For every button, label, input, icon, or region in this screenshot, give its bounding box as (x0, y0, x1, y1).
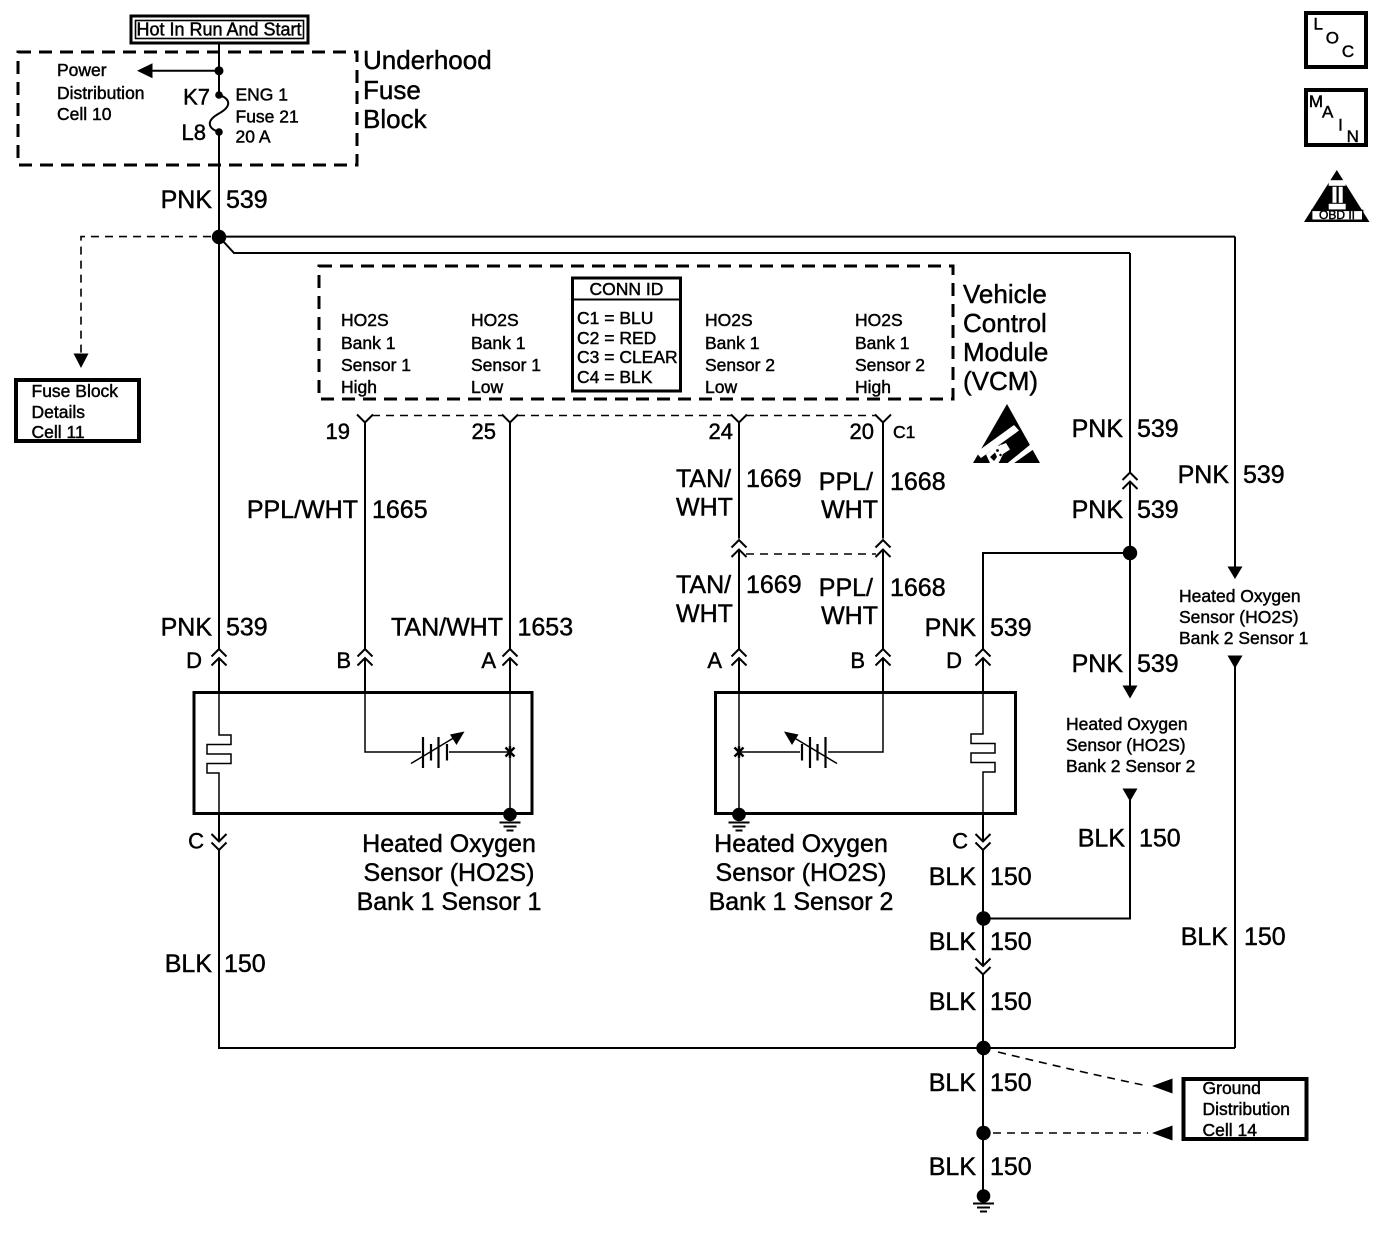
svg-text:TAN/: TAN/ (676, 571, 731, 599)
svg-text:Underhood: Underhood (363, 45, 492, 75)
svg-text:Fuse Block: Fuse Block (32, 381, 119, 401)
svg-text:150: 150 (990, 988, 1032, 1016)
svg-text:HO2S: HO2S (855, 310, 903, 330)
svg-text:WHT: WHT (676, 600, 733, 628)
sensor1 internal wire A to ground (509, 691, 511, 813)
junction BLK splice 1 (976, 911, 990, 925)
svg-text:539: 539 (1243, 461, 1285, 489)
sensor1 D pin connector (212, 649, 227, 657)
inline connector on PNK 539 (x=1130) (1123, 473, 1138, 481)
wire BLK 150 sensor2 C to splice (982, 850, 984, 966)
sensor2 internal wire B to cell (828, 691, 883, 752)
svg-text:1668: 1668 (890, 574, 946, 602)
svg-text:150: 150 (990, 863, 1032, 891)
svg-text:Sensor 2: Sensor 2 (705, 355, 775, 375)
svg-text:C3 = CLEAR: C3 = CLEAR (577, 347, 678, 367)
svg-text:Ground: Ground (1203, 1078, 1261, 1098)
svg-text:Bank 1 Sensor 2: Bank 1 Sensor 2 (709, 888, 894, 916)
junction dot for ground ref (976, 1126, 990, 1140)
svg-text:C: C (188, 829, 204, 854)
svg-text:Heated Oxygen: Heated Oxygen (362, 830, 536, 858)
wire pin24 TAN/WHT 1669 lower segment (738, 550, 740, 649)
svg-text:539: 539 (226, 186, 268, 214)
wire from Bank 2 Sensor 1 return (1228, 656, 1243, 669)
svg-text:19: 19 (326, 419, 350, 444)
sensor2 C pin connector (982, 814, 984, 842)
svg-text:25: 25 (472, 419, 496, 444)
wire BLK 150 from sensor1 C down and right (219, 850, 1235, 1048)
svg-text:HO2S: HO2S (471, 310, 519, 330)
arrowhead down to Fuse Block Details (74, 354, 89, 369)
svg-text:Low: Low (705, 377, 737, 397)
svg-text:C2 = RED: C2 = RED (577, 328, 656, 348)
svg-text:PNK: PNK (1072, 496, 1124, 524)
svg-text:BLK: BLK (1181, 923, 1229, 951)
Fuse Block Details Cell 11 box (16, 380, 139, 441)
wire pin19 PPL/WHT 1665 down to B pin (364, 423, 366, 650)
wire PNK 539 junction down to sensor1 D pin (218, 237, 220, 649)
svg-text:Sensor 1: Sensor 1 (341, 355, 411, 375)
svg-text:Control: Control (963, 308, 1047, 338)
svg-text:150: 150 (990, 1069, 1032, 1097)
sensor2 junction X marker (735, 746, 744, 758)
svg-text:PNK: PNK (161, 614, 213, 642)
inline connector on wire 1669 (732, 540, 747, 548)
svg-text:150: 150 (1244, 923, 1286, 951)
svg-text:Fuse: Fuse (363, 75, 421, 105)
svg-text:TAN/: TAN/ (676, 465, 731, 493)
svg-text:Cell 14: Cell 14 (1203, 1120, 1258, 1140)
variable voltage cell sensor2 (824, 737, 826, 768)
svg-text:A: A (1322, 102, 1334, 121)
heater element sensor2 (971, 691, 995, 814)
svg-text:WHT: WHT (676, 494, 733, 522)
svg-text:Bank 2 Sensor 2: Bank 2 Sensor 2 (1066, 756, 1195, 776)
Hot In Run And Start box (131, 16, 308, 43)
OBD II symbol (1304, 170, 1370, 222)
svg-text:I: I (1338, 116, 1343, 135)
svg-text:BLK: BLK (165, 950, 213, 978)
svg-text:150: 150 (224, 950, 266, 978)
svg-text:D: D (946, 648, 962, 673)
svg-text:PPL/: PPL/ (819, 468, 873, 496)
svg-text:20 A: 20 A (236, 127, 271, 147)
svg-text:Sensor (HO2S): Sensor (HO2S) (1066, 735, 1186, 755)
variable voltage cell sensor1 (422, 737, 424, 768)
svg-text:Fuse 21: Fuse 21 (236, 107, 299, 127)
svg-text:CONN ID: CONN ID (590, 279, 664, 299)
svg-text:B: B (850, 648, 865, 673)
CONN ID table box (573, 278, 681, 391)
svg-text:1668: 1668 (890, 468, 946, 496)
sensor2 ground (732, 808, 746, 822)
wire PNK splice down to arrow (1129, 553, 1131, 686)
svg-text:BLK: BLK (929, 928, 977, 956)
svg-text:1669: 1669 (746, 465, 802, 493)
dashed reference to Ground Distribution (from splice2) (998, 1052, 1148, 1086)
svg-text:C: C (952, 829, 968, 854)
sensor2 internal wire A to ground (738, 691, 740, 813)
svg-text:M: M (1309, 92, 1323, 111)
HO2S Bank 1 Sensor 2 box (716, 693, 1016, 814)
svg-text:BLK: BLK (929, 1153, 977, 1181)
MAIN symbol (1306, 90, 1366, 145)
junction at Hot feed (215, 66, 224, 75)
svg-text:Bank 1: Bank 1 (855, 333, 909, 353)
wire PNK 539 second horizontal run (222, 240, 1130, 253)
svg-text:150: 150 (990, 1153, 1032, 1181)
VCM pin 24 fork (731, 415, 747, 423)
svg-text:OBD II: OBD II (1319, 208, 1355, 222)
svg-text:24: 24 (709, 419, 733, 444)
sensor1 ground (503, 808, 517, 822)
arrowhead PNK down (Bank 2 Sensor 2) (1123, 686, 1138, 699)
sensor2 A pin connector (732, 649, 747, 657)
wire PNK 539 top horizontal run to right side (219, 236, 1235, 238)
svg-text:PNK: PNK (161, 186, 213, 214)
wire to Power Distribution arrow (152, 70, 219, 72)
svg-text:A: A (481, 648, 496, 673)
svg-text:Low: Low (471, 377, 503, 397)
svg-text:PPL/: PPL/ (819, 574, 873, 602)
svg-text:C1: C1 (893, 422, 915, 442)
wire right vertical PNK 539 to HO2S Bank 2 Sensor 1 (1234, 237, 1236, 567)
svg-text:Sensor (HO2S): Sensor (HO2S) (364, 859, 535, 887)
sensor1 C pin connector (218, 815, 220, 842)
svg-text:Vehicle: Vehicle (963, 279, 1047, 309)
connector C1 dashed line under VCM (372, 415, 503, 417)
svg-text:539: 539 (1137, 650, 1179, 678)
svg-text:High: High (855, 377, 891, 397)
svg-text:N: N (1347, 127, 1359, 146)
heater element sensor1 (207, 691, 231, 815)
svg-text:PNK: PNK (925, 614, 977, 642)
arrowhead PNK down (Bank 2 Sensor 1) (1228, 567, 1243, 580)
Ground Distribution Cell 14 box (1184, 1079, 1307, 1139)
svg-text:BLK: BLK (929, 1069, 977, 1097)
svg-text:1653: 1653 (518, 614, 574, 642)
svg-text:Power: Power (57, 60, 107, 80)
svg-text:O: O (1326, 29, 1339, 48)
VCM dashed box (319, 266, 953, 399)
svg-text:539: 539 (1137, 415, 1179, 443)
svg-text:150: 150 (1139, 825, 1181, 853)
svg-text:150: 150 (990, 928, 1032, 956)
sensor1 wire cell to A (449, 751, 510, 753)
svg-text:A: A (707, 648, 722, 673)
svg-text:Distribution: Distribution (1203, 1099, 1291, 1119)
Underhood Fuse Block dashed box (18, 52, 357, 165)
sensor2 D pin connector (976, 649, 991, 657)
svg-text:Distribution: Distribution (57, 83, 145, 103)
svg-text:ENG 1: ENG 1 (236, 85, 289, 105)
svg-text:L: L (1314, 15, 1323, 34)
svg-text:BLK: BLK (1078, 825, 1126, 853)
dashed reference to Ground Distribution (from dot) (993, 1132, 1148, 1134)
sensor1 B pin connector (358, 649, 373, 657)
sensor1 junction X marker (506, 746, 515, 758)
svg-text:Cell 10: Cell 10 (57, 104, 112, 124)
svg-text:Sensor 1: Sensor 1 (471, 355, 541, 375)
svg-text:539: 539 (1137, 496, 1179, 524)
svg-text:(VCM): (VCM) (963, 366, 1038, 396)
svg-text:Hot In Run And Start: Hot In Run And Start (136, 20, 301, 40)
dashed link between inline connectors (746, 553, 876, 555)
svg-text:PNK: PNK (1178, 461, 1230, 489)
svg-text:B: B (336, 648, 351, 673)
svg-text:Heated Oxygen: Heated Oxygen (1179, 586, 1301, 606)
svg-text:Block: Block (363, 104, 428, 134)
arrowhead to Power Distribution (137, 63, 153, 78)
wire fuse to junction (218, 132, 220, 237)
svg-text:539: 539 (990, 614, 1032, 642)
svg-text:Sensor (HO2S): Sensor (HO2S) (716, 859, 887, 887)
svg-text:539: 539 (226, 614, 268, 642)
svg-text:Sensor 2: Sensor 2 (855, 355, 925, 375)
svg-text:WHT: WHT (821, 496, 878, 524)
svg-text:Heated Oxygen: Heated Oxygen (1066, 714, 1188, 734)
VCM pin 25 fork (502, 415, 518, 423)
wire pin24 TAN/WHT 1669 upper segment (738, 423, 740, 539)
sensor1 internal wire B to cell (365, 691, 421, 752)
junction node PNK splice right (1123, 546, 1137, 560)
ESD sensitivity symbol (973, 404, 1040, 466)
sensor2 wire cell to A (739, 751, 800, 753)
wire pin20 PPL/WHT 1668 lower segment (882, 550, 884, 649)
svg-text:1669: 1669 (746, 571, 802, 599)
wire PNK from splice to D pin of sensor 2 (983, 553, 1130, 649)
svg-text:Bank 2 Sensor 1: Bank 2 Sensor 1 (1179, 628, 1308, 648)
HO2S Bank 1 Sensor 1 box (194, 693, 532, 814)
ground G bottom (977, 1189, 991, 1203)
junction node PNK splice (212, 230, 226, 244)
svg-text:PNK: PNK (1072, 650, 1124, 678)
svg-text:Module: Module (963, 337, 1048, 367)
wire from Hot In Run box down to fuse (218, 43, 220, 95)
junction BLK splice 2 (976, 1041, 990, 1055)
svg-text:D: D (186, 648, 202, 673)
svg-text:High: High (341, 377, 377, 397)
svg-text:Details: Details (32, 402, 86, 422)
svg-text:Bank 1: Bank 1 (341, 333, 395, 353)
svg-text:20: 20 (850, 419, 874, 444)
sensor2 B pin connector (876, 649, 891, 657)
svg-text:Cell 11: Cell 11 (32, 422, 85, 442)
VCM pin 19 fork (357, 415, 373, 423)
svg-text:1665: 1665 (372, 496, 428, 524)
wire inner vertical PNK 539 branch (1129, 253, 1131, 472)
VCM pin 20 fork (875, 415, 891, 423)
svg-text:Sensor (HO2S): Sensor (HO2S) (1179, 607, 1299, 627)
LOC symbol (1306, 13, 1366, 67)
svg-text:TAN/WHT: TAN/WHT (391, 614, 503, 642)
svg-text:Heated Oxygen: Heated Oxygen (714, 830, 888, 858)
inline connector on wire 1668 (876, 540, 891, 548)
wire from Bank 2 Sensor 2 return (1123, 789, 1138, 802)
svg-text:L8: L8 (182, 120, 206, 145)
wire pin25 TAN/WHT 1653 down to A pin (509, 423, 511, 650)
svg-text:PPL/WHT: PPL/WHT (247, 496, 358, 524)
svg-text:BLK: BLK (929, 988, 977, 1016)
svg-text:C: C (1342, 42, 1354, 61)
inline connector BLK (976, 959, 991, 967)
svg-text:Bank 1 Sensor 1: Bank 1 Sensor 1 (357, 888, 542, 916)
svg-text:C4 = BLK: C4 = BLK (577, 367, 653, 387)
svg-text:C1 = BLU: C1 = BLU (577, 308, 653, 328)
svg-text:HO2S: HO2S (341, 310, 389, 330)
svg-text:BLK: BLK (929, 863, 977, 891)
svg-text:Bank 1: Bank 1 (471, 333, 525, 353)
svg-text:WHT: WHT (821, 602, 878, 630)
svg-text:K7: K7 (183, 85, 210, 110)
fuse ENG 1 Fuse 21 20 A (215, 91, 223, 99)
svg-text:Bank 1: Bank 1 (705, 333, 759, 353)
svg-text:PNK: PNK (1072, 415, 1124, 443)
sensor1 A pin connector (503, 649, 518, 657)
dashed reference line to Fuse Block Details (81, 237, 211, 353)
svg-text:HO2S: HO2S (705, 310, 753, 330)
wire pin20 PPL/WHT 1668 upper segment (882, 423, 884, 539)
